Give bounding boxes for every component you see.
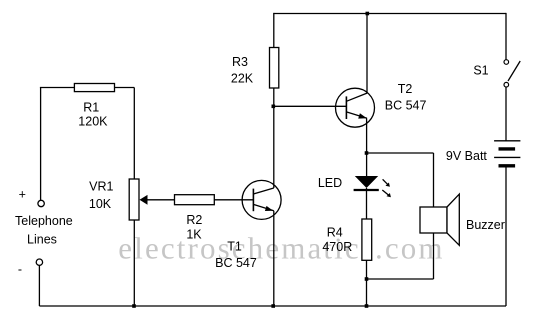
node R3 / T2 base junction <box>272 105 276 109</box>
resistor R1 <box>74 84 114 92</box>
wire LED to R4 <box>366 188 368 219</box>
svg-text:R3: R3 <box>232 55 248 69</box>
transistor T2 <box>336 88 375 127</box>
wire R4 junction to bottom rail <box>366 279 368 306</box>
svg-text:electroschematics.com: electroschematics.com <box>118 230 442 265</box>
wire top right vertical <box>505 13 507 60</box>
junction top rail at T2 collector <box>366 12 370 16</box>
LED light arrow 2 <box>382 190 391 197</box>
svg-text:BC 547: BC 547 <box>215 256 257 270</box>
node R4 bottom junction <box>365 277 369 281</box>
svg-text:9V Batt: 9V Batt <box>446 149 488 163</box>
wire buzzer bottom horizontal <box>367 278 434 280</box>
svg-text:-: - <box>18 262 22 276</box>
resistor R4 <box>362 219 372 260</box>
svg-text:1K: 1K <box>186 228 202 242</box>
node T1 emitter at bottom rail <box>271 304 275 308</box>
svg-text:R1: R1 <box>83 100 99 114</box>
node bottom rail at LED column <box>365 304 369 308</box>
wire buzzer top horizontal <box>367 152 434 154</box>
svg-text:Telephone: Telephone <box>15 214 73 228</box>
wire R1 left horizontal <box>40 87 75 89</box>
svg-text:BC 547: BC 547 <box>385 98 427 112</box>
wire battery to bottom rail <box>505 166 507 306</box>
svg-text:Lines: Lines <box>27 233 57 247</box>
wire left vertical to plus terminal <box>40 88 42 201</box>
wire minus terminal down <box>38 265 40 306</box>
svg-text:VR1: VR1 <box>89 180 113 194</box>
svg-text:120K: 120K <box>78 114 108 128</box>
LED light arrow 1 <box>383 179 390 187</box>
svg-text:R4: R4 <box>327 226 343 240</box>
resistor R3 <box>270 48 279 89</box>
battery 9V <box>494 141 520 166</box>
svg-text:+: + <box>19 187 26 201</box>
wire R2 to T1 base <box>214 199 253 201</box>
terminal minus <box>36 259 42 265</box>
node bottom rail at VR1 column <box>132 304 136 308</box>
transistor T1 <box>242 180 281 219</box>
wire R3 bottom <box>273 88 275 106</box>
wire T1 collector vertical <box>273 106 275 188</box>
VR1 wiper arrow <box>140 195 175 205</box>
potentiometer VR1 <box>129 179 139 220</box>
svg-text:S1: S1 <box>473 64 488 78</box>
wire T1 emitter vertical <box>273 211 275 306</box>
terminal plus <box>38 200 44 206</box>
wire T2 collector vertical <box>366 14 368 94</box>
wire R3 top <box>273 13 275 48</box>
wire buzzer bottom vertical <box>433 233 435 279</box>
svg-text:Buzzer: Buzzer <box>466 218 505 232</box>
svg-text:LED: LED <box>318 176 342 190</box>
svg-text:T2: T2 <box>398 82 413 96</box>
switch S1 <box>504 60 520 87</box>
node LED top junction <box>365 151 369 155</box>
wire buzzer top vertical <box>433 153 435 207</box>
buzzer <box>420 194 459 245</box>
wire top rail <box>273 13 506 15</box>
svg-text:470R: 470R <box>322 240 352 254</box>
wire R4 bottom <box>366 260 368 279</box>
svg-text:10K: 10K <box>89 197 112 211</box>
LED diode <box>354 176 379 190</box>
wire VR1 bottom <box>133 220 135 306</box>
wire T2 emitter vertical <box>366 118 368 176</box>
svg-text:T1: T1 <box>227 240 242 254</box>
wire R1 to VR1 vertical <box>133 88 135 180</box>
wire T2 base <box>273 105 346 107</box>
wire bottom rail <box>39 305 506 307</box>
wire switch to battery <box>505 87 507 141</box>
resistor R2 <box>175 195 215 205</box>
svg-text:22K: 22K <box>231 72 254 86</box>
wire R1 right horizontal <box>115 87 135 89</box>
svg-text:R2: R2 <box>186 213 202 227</box>
